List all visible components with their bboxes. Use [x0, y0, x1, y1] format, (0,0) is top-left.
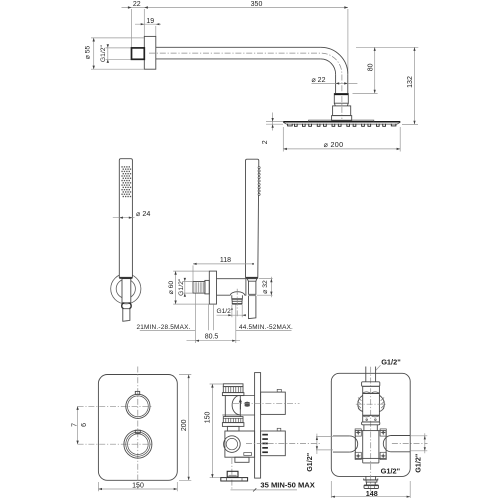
thread section lower	[363, 415, 380, 422]
svg-text:⌀ 200: ⌀ 200	[324, 140, 344, 149]
dim 80	[374, 47, 376, 93]
svg-text:G1/2": G1/2"	[414, 454, 423, 473]
svg-text:G1/2": G1/2"	[217, 308, 234, 315]
arm bend inner arc	[321, 59, 336, 74]
wall flange	[144, 36, 156, 69]
hand shower wand (side view)	[246, 159, 259, 277]
extension line arm top right	[356, 46, 418, 48]
plate centerline	[137, 367, 139, 489]
dim 150	[98, 482, 177, 491]
outlet centerline	[236, 289, 238, 316]
boss sides	[232, 295, 243, 298]
dim G1/2 hose	[217, 305, 247, 317]
right pipe centerline	[392, 442, 428, 444]
svg-text:118: 118	[220, 257, 231, 264]
volume control housing	[225, 431, 255, 457]
svg-text:19: 19	[146, 18, 154, 25]
wand bottom face	[246, 277, 258, 279]
dim 22/350 line	[122, 7, 349, 9]
right outlet pipe	[391, 436, 411, 452]
volume cartridge	[261, 431, 286, 456]
dim G1/2 wall	[106, 48, 131, 59]
vertical centerline	[370, 367, 372, 497]
left pipe dim G1/2	[316, 434, 333, 454]
boss collar dark	[232, 298, 243, 300]
dim dia60	[173, 271, 209, 304]
svg-text:80.5: 80.5	[205, 334, 219, 341]
arm bottom line	[156, 58, 321, 60]
connector nut	[334, 94, 348, 104]
volume knob tab	[135, 430, 140, 433]
hose (front)	[123, 309, 130, 322]
dim ticks	[128, 6, 132, 8]
BOTTOM MIDDLE: valve side view	[205, 373, 320, 492]
thermostat cartridge	[261, 392, 286, 414]
extension line pipe end	[353, 92, 378, 94]
outlet centerline	[231, 458, 233, 490]
svg-text:G1/2": G1/2"	[305, 453, 314, 472]
arm bend outer arc	[321, 47, 348, 74]
svg-text:22: 22	[133, 1, 141, 8]
arm top line	[156, 46, 321, 48]
shower head plate bottom	[283, 122, 400, 124]
dia24 label	[113, 217, 135, 219]
shower head raised rim	[309, 120, 374, 122]
outlet flange dia60	[209, 271, 216, 304]
dim dia32	[257, 277, 273, 298]
svg-text:148: 148	[366, 489, 378, 498]
volume centerline	[246, 442, 320, 444]
holder ring inner	[116, 279, 135, 298]
second knurled nut	[223, 417, 243, 423]
dim 76 knobs	[77, 406, 79, 444]
barrel knurl hatch	[357, 398, 385, 412]
bottom outlet cup	[227, 471, 238, 477]
svg-text:80: 80	[368, 63, 375, 71]
top knurled nut	[223, 384, 243, 387]
up arrow	[239, 402, 241, 410]
dim 148	[331, 481, 410, 498]
svg-text:⌀ 24: ⌀ 24	[136, 209, 150, 218]
svg-text:6: 6	[81, 423, 88, 427]
hose clip left	[122, 303, 124, 309]
outlet body	[217, 279, 246, 296]
barrel centerline	[356, 403, 386, 405]
TOP: shower arm assembly	[85, 1, 419, 151]
bottom outlet hat	[364, 479, 378, 480]
svg-text:G1/2": G1/2"	[381, 467, 401, 476]
hose nut on outlet	[232, 301, 242, 304]
svg-text:G1/2": G1/2"	[381, 358, 401, 367]
bottom outlet stem	[366, 476, 376, 480]
connector base	[332, 116, 352, 121]
hose upper segment	[249, 281, 256, 294]
thermostat centerline	[233, 402, 300, 404]
tube to wall plate	[222, 395, 254, 415]
outlet dome boss	[230, 292, 244, 296]
nozzles	[288, 124, 396, 127]
hose nut (side)	[247, 279, 257, 282]
extension lines	[132, 9, 348, 74]
central body	[363, 431, 379, 463]
dim 2	[266, 113, 283, 131]
svg-text:35 MIN-50 MAX: 35 MIN-50 MAX	[260, 481, 314, 490]
BOTTOM LEFT: trim plate front	[72, 367, 192, 492]
trim plate	[98, 375, 177, 481]
dim 118	[193, 264, 253, 281]
volume knob	[124, 430, 152, 458]
connector cylinder	[333, 106, 351, 116]
outlet nipple G1/2	[193, 282, 205, 294]
right pipe dim G1/2	[411, 433, 427, 453]
hose break mark	[249, 295, 256, 297]
screw boxes	[355, 429, 361, 436]
holder ring outer	[111, 274, 141, 304]
mounting plate square	[355, 431, 386, 459]
wall plate side	[255, 373, 261, 479]
MIDDLE: hand shower and wall outlet	[111, 159, 293, 343]
step bracket	[235, 457, 249, 462]
thermostat knob	[126, 394, 150, 418]
housing arch	[232, 395, 240, 415]
inlet thread square	[132, 48, 145, 59]
svg-text:150: 150	[205, 411, 212, 423]
hose lower segment	[249, 296, 256, 319]
spray dots (side)	[258, 167, 260, 196]
volume control circle	[224, 436, 241, 453]
wand neck through ring	[122, 279, 131, 303]
svg-text:⌀ 32: ⌀ 32	[262, 280, 269, 294]
wand grip bottom band	[119, 277, 132, 279]
cartridge housing body	[225, 395, 240, 416]
dim 150	[210, 384, 223, 478]
left inlet pipe	[333, 436, 350, 452]
neck	[227, 426, 239, 431]
svg-text:350: 350	[251, 1, 263, 8]
svg-text:200: 200	[181, 419, 188, 431]
volume cartridge thread marks	[262, 434, 268, 453]
union nut barrel	[363, 394, 380, 416]
bottom outlet nut	[364, 485, 379, 489]
shower head plate top	[283, 121, 400, 123]
svg-text:150: 150	[132, 482, 144, 489]
svg-text:G1/2": G1/2"	[178, 278, 185, 296]
thermostat knob tab	[135, 391, 139, 394]
dim 132	[402, 47, 418, 124]
dim dia200	[283, 127, 400, 152]
screw crosses	[355, 430, 361, 436]
dim G1/2 nipple	[183, 282, 193, 294]
bottom outlet base plate	[221, 478, 248, 481]
bottom outlet band	[366, 480, 377, 482]
dim dia55	[91, 38, 144, 69]
dim 200	[179, 375, 191, 481]
svg-text:G1/2": G1/2"	[100, 44, 107, 62]
svg-text:7: 7	[72, 423, 79, 427]
hand shower wand grip (front view)	[119, 159, 132, 278]
svg-text:⌀ 55: ⌀ 55	[85, 46, 92, 60]
BOTTOM RIGHT: valve rear view	[305, 358, 428, 499]
svg-text:⌀ 60: ⌀ 60	[168, 281, 175, 295]
valve body plate	[331, 373, 410, 476]
thread section upper	[363, 386, 380, 393]
hose clip right	[129, 303, 131, 309]
temperature flower icon	[245, 402, 250, 407]
dim 80.5	[187, 294, 241, 344]
dim 19 line	[135, 23, 161, 25]
drop pipe	[336, 74, 348, 93]
top collar	[362, 382, 380, 387]
svg-text:2: 2	[262, 140, 269, 144]
top inlet pipe	[366, 367, 376, 382]
knob center marks	[78, 406, 152, 444]
centerline arm	[149, 53, 342, 119]
svg-text:132: 132	[407, 76, 414, 88]
neck	[364, 425, 377, 431]
outlet collar	[205, 280, 209, 294]
bottom collar	[362, 422, 380, 425]
spray face dots	[121, 166, 131, 197]
